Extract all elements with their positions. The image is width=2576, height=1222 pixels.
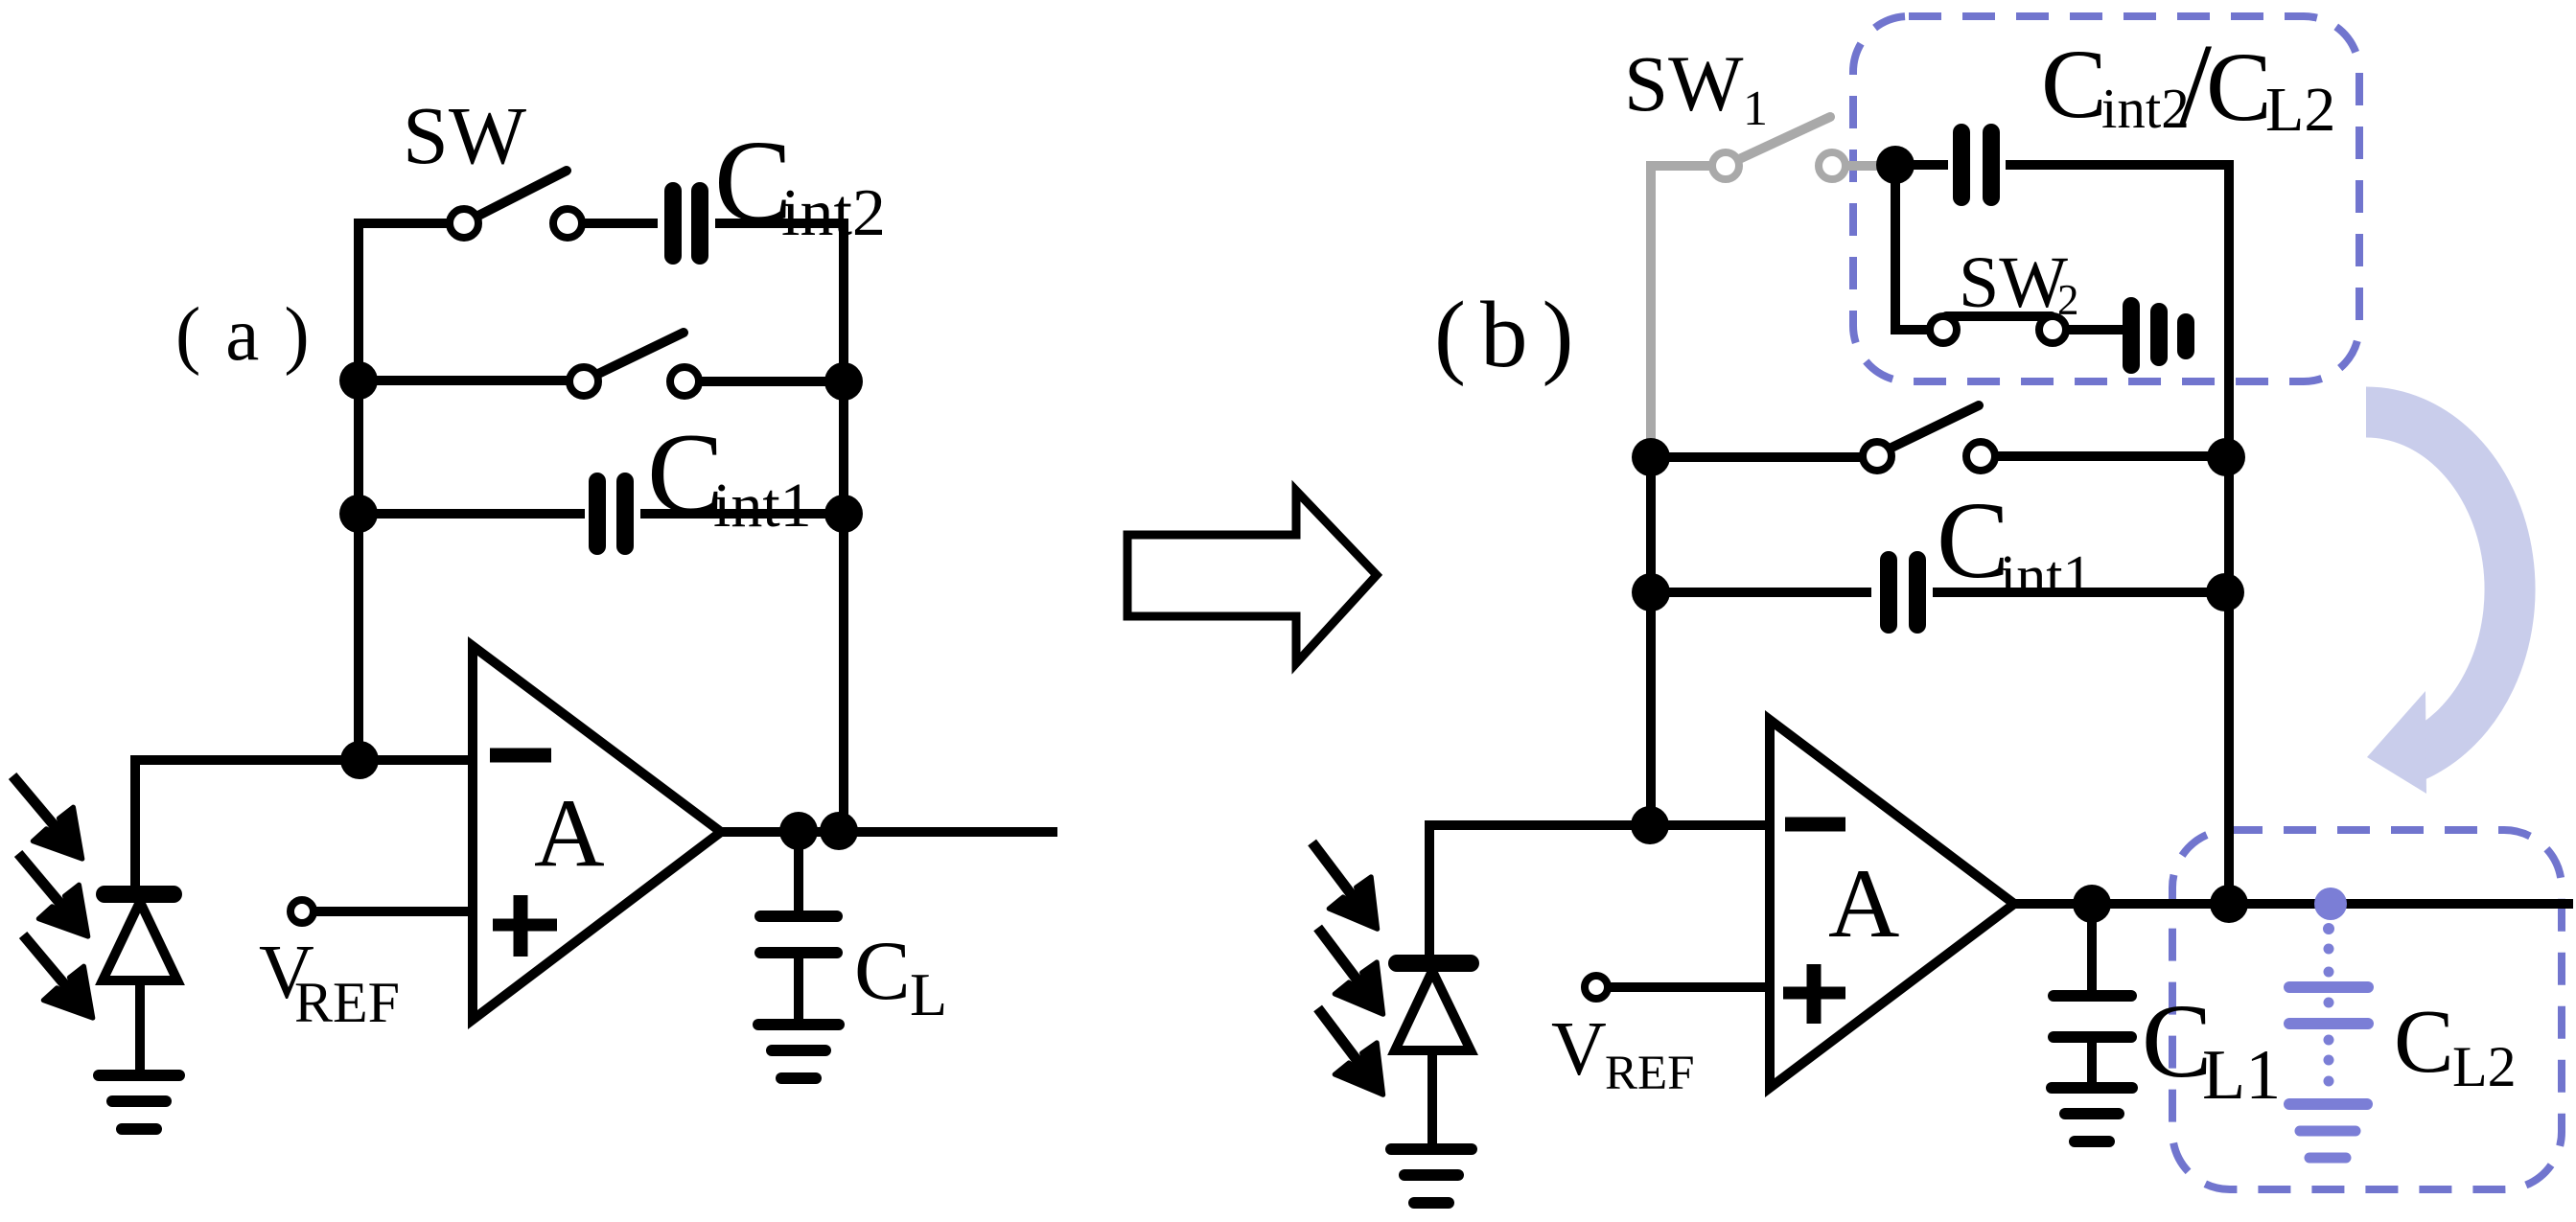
svg-text:L2: L2 — [2452, 1035, 2517, 1098]
svg-text:REF: REF — [294, 971, 400, 1034]
svg-text:int1: int1 — [2000, 544, 2092, 610]
svg-text:SW: SW — [1624, 39, 1744, 127]
svg-text:int1: int1 — [713, 471, 812, 541]
svg-text:A: A — [534, 779, 605, 888]
svg-text:A: A — [1828, 849, 1899, 958]
svg-text:C: C — [1937, 479, 2009, 601]
svg-text:L: L — [910, 960, 947, 1028]
svg-text:int2: int2 — [781, 176, 886, 250]
svg-text:L1: L1 — [2202, 1036, 2281, 1115]
svg-text:int2: int2 — [2101, 77, 2190, 140]
svg-text:L2: L2 — [2265, 75, 2335, 145]
svg-text:2: 2 — [2057, 276, 2079, 324]
svg-text:C: C — [2206, 33, 2272, 142]
svg-text:(b): (b) — [1434, 283, 1588, 387]
svg-text:SW: SW — [403, 89, 526, 181]
svg-text:C: C — [854, 925, 911, 1018]
svg-text:REF: REF — [1605, 1047, 1695, 1100]
svg-text:V: V — [1551, 1007, 1607, 1092]
svg-text:(a): (a) — [175, 293, 335, 377]
svg-text:C: C — [2041, 30, 2107, 139]
svg-text:1: 1 — [1743, 81, 1768, 136]
svg-text:C: C — [2394, 992, 2454, 1092]
svg-text:SW: SW — [1959, 242, 2068, 323]
